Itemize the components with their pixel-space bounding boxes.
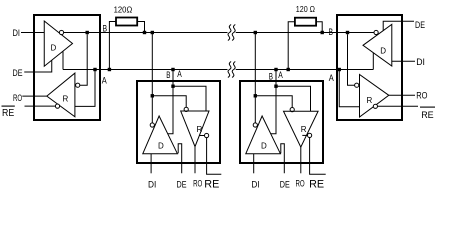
- svg-text:B: B: [329, 27, 334, 37]
- svg-text:DE: DE: [177, 179, 187, 189]
- svg-text:RE: RE: [204, 179, 219, 191]
- svg-text:D: D: [51, 44, 57, 53]
- svg-text:B: B: [166, 70, 170, 80]
- svg-text:RO: RO: [193, 179, 202, 189]
- svg-text:RE: RE: [421, 110, 434, 121]
- svg-text:D: D: [158, 141, 164, 150]
- svg-text:A: A: [278, 70, 283, 80]
- svg-text:A: A: [329, 73, 335, 83]
- svg-text:R: R: [197, 125, 203, 134]
- svg-text:RO: RO: [13, 93, 22, 103]
- svg-text:B: B: [103, 23, 108, 33]
- svg-text:D: D: [261, 141, 267, 150]
- svg-text:120Ω: 120Ω: [114, 6, 133, 15]
- svg-text:B: B: [269, 72, 273, 82]
- svg-text:D: D: [380, 47, 386, 56]
- svg-text:DI: DI: [251, 179, 259, 189]
- svg-text:DI: DI: [13, 28, 21, 38]
- svg-text:RO: RO: [296, 179, 305, 189]
- svg-text:RE: RE: [309, 179, 324, 191]
- svg-text:DE: DE: [415, 20, 425, 30]
- svg-text:DE: DE: [280, 179, 290, 189]
- svg-text:DI: DI: [416, 57, 425, 67]
- svg-text:DI: DI: [148, 179, 156, 189]
- svg-text:RE: RE: [2, 107, 14, 119]
- svg-text:A: A: [177, 69, 182, 79]
- svg-text:RO: RO: [416, 90, 427, 100]
- svg-text:120 Ω: 120 Ω: [296, 5, 315, 14]
- svg-text:R: R: [63, 95, 69, 104]
- svg-text:DE: DE: [13, 68, 23, 78]
- svg-text:R: R: [301, 125, 307, 134]
- svg-text:R: R: [367, 96, 373, 105]
- svg-text:A: A: [102, 76, 108, 86]
